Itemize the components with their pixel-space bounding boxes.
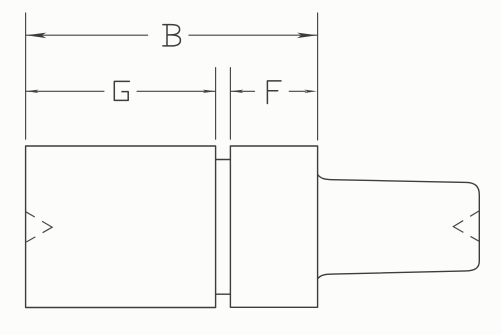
arrowhead B right bbox=[297, 33, 317, 39]
taper shank outline bbox=[318, 175, 480, 279]
label F bbox=[267, 81, 281, 104]
neck bottom line bbox=[216, 293, 231, 295]
arrowhead F left bbox=[231, 90, 244, 93]
body rectangle (large diameter section) bbox=[26, 146, 216, 308]
extension line mid-left bbox=[215, 68, 217, 140]
dimension line B bbox=[26, 34, 317, 36]
arrowhead G left bbox=[26, 90, 39, 93]
arrowhead G right bbox=[203, 90, 216, 93]
extension line left bbox=[25, 13, 27, 139]
arrowhead F right bbox=[304, 90, 317, 93]
arrowhead B left bbox=[26, 33, 46, 39]
dimension line G bbox=[26, 90, 215, 92]
extension line right bbox=[317, 13, 319, 140]
label B bbox=[163, 25, 181, 46]
extension line mid-right bbox=[229, 68, 231, 140]
neck top line bbox=[216, 159, 231, 161]
collar rectangle (middle section) bbox=[230, 146, 317, 307]
dimension line F bbox=[231, 90, 306, 92]
center hole chevron right (hidden line) bbox=[453, 211, 479, 241]
label G bbox=[114, 81, 129, 100]
center hole chevron left (hidden line) bbox=[26, 212, 52, 243]
